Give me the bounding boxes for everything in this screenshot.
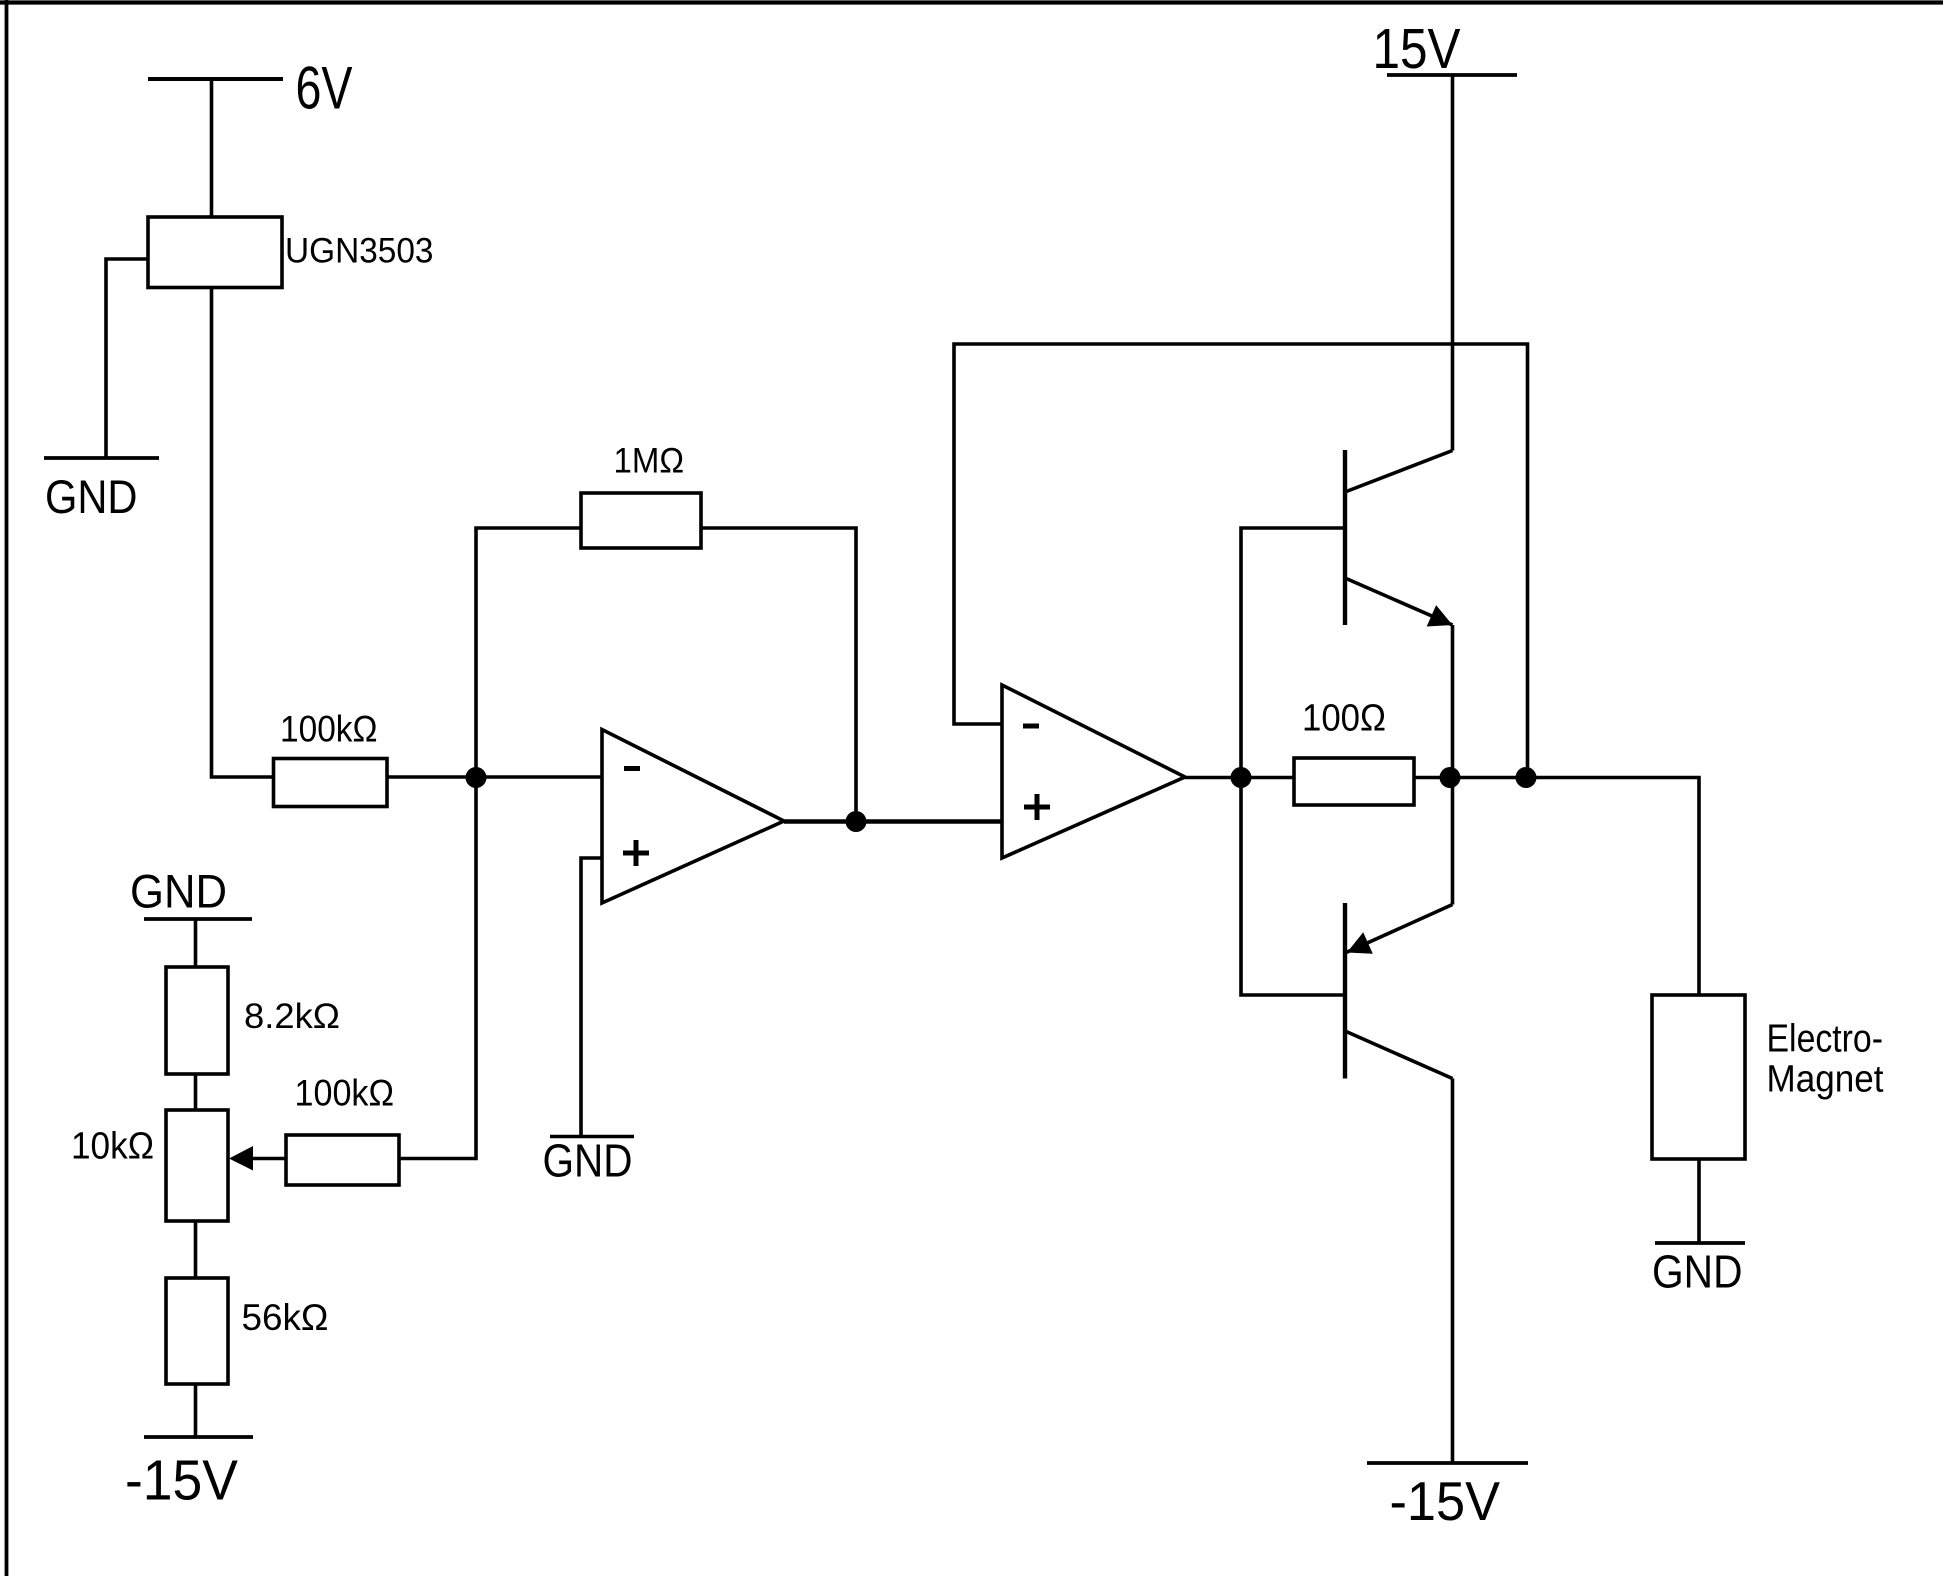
power 15V — [1373, 17, 1518, 80]
wire U2 + input to ground — [581, 858, 602, 1137]
wire R2 to U2 output node — [701, 528, 856, 822]
transistor Q2 PNP — [1345, 903, 1453, 1079]
wire R5 to node A — [399, 778, 476, 1159]
resistor R3 8.2kΩ — [166, 967, 228, 1074]
wire U1 ground pin — [106, 259, 148, 458]
svg-text:10kΩ: 10kΩ — [71, 1126, 154, 1168]
svg-text:100Ω: 100Ω — [1302, 698, 1386, 740]
power -15V (output stage) — [1367, 1463, 1528, 1532]
svg-text:15V: 15V — [1373, 17, 1461, 80]
resistor R1 100kΩ — [274, 759, 388, 807]
wire output rail to electromagnet — [1414, 778, 1699, 996]
svg-text:56kΩ: 56kΩ — [242, 1297, 329, 1338]
svg-text:UGN3503: UGN3503 — [285, 232, 434, 271]
wire R6 to -15V — [194, 1384, 198, 1437]
op-amp U2 — [602, 730, 784, 904]
power -15V (divider) — [125, 1437, 253, 1512]
wire U3 output — [1185, 776, 1294, 780]
ground GND (U2 + input) — [543, 1135, 635, 1187]
hall sensor U1 UGN3503 — [148, 217, 282, 288]
node A — [466, 767, 487, 788]
svg-text:GND: GND — [543, 1135, 633, 1187]
svg-text:GND: GND — [130, 865, 227, 918]
wire Q1 emitter to output rail — [1451, 625, 1455, 905]
svg-text:100kΩ: 100kΩ — [295, 1072, 395, 1114]
ground GND (electromagnet) — [1652, 1243, 1745, 1298]
label Electro-Magnet — [1767, 1018, 1884, 1101]
ground GND (divider top) — [130, 865, 252, 920]
wire U1 output to R1 — [212, 288, 274, 778]
wire U2 output to U3 + input — [784, 819, 1002, 823]
node C (U3 output) — [1231, 767, 1252, 788]
node B (U2 output) — [846, 811, 867, 832]
svg-text:GND: GND — [45, 470, 138, 523]
wire node A up to R2 — [476, 528, 581, 778]
wire divider GND to R3 — [194, 919, 198, 967]
electromagnet L1 — [1652, 995, 1745, 1159]
potentiometer R4 10kΩ — [166, 1110, 228, 1221]
wiper arrow of R4 — [229, 1146, 286, 1171]
svg-text:1MΩ: 1MΩ — [614, 442, 685, 481]
svg-text:Magnet: Magnet — [1767, 1059, 1884, 1101]
svg-text:Electro-: Electro- — [1767, 1018, 1884, 1061]
resistor R6 56kΩ — [166, 1278, 228, 1384]
op-amp U3 — [1002, 685, 1185, 858]
resistor R2 1MΩ — [581, 493, 701, 548]
wire 6V to U1 — [210, 79, 214, 217]
wire Q1 collector to 15V — [1451, 75, 1455, 451]
resistor R5 100kΩ (wiper link) — [286, 1135, 399, 1185]
resistor R7 100Ω — [1294, 758, 1414, 805]
wire base bus to Q1 — [1241, 528, 1345, 778]
wire electromagnet to ground — [1697, 1159, 1701, 1243]
wire R4 to R6 — [194, 1221, 198, 1278]
svg-text:-15V: -15V — [1390, 1471, 1501, 1532]
node E (feedback tap) — [1516, 767, 1537, 788]
svg-text:6V: 6V — [296, 55, 353, 122]
ground GND (hall sensor) — [44, 458, 159, 523]
wire R1 to U2 inverting input — [387, 775, 602, 779]
svg-text:GND: GND — [1652, 1246, 1743, 1298]
power 6V supply bar — [148, 77, 283, 81]
wire base bus to Q2 — [1241, 778, 1345, 996]
node D (emitter rail) — [1440, 767, 1461, 788]
svg-text:100kΩ: 100kΩ — [280, 708, 378, 750]
transistor Q1 NPN — [1345, 450, 1453, 627]
wire Q2 collector to -15V — [1451, 1079, 1455, 1464]
wire R3 to R4 — [194, 1074, 198, 1110]
svg-text:8.2kΩ: 8.2kΩ — [244, 997, 340, 1036]
feedback wire U3 (output node to - input) — [954, 344, 1528, 778]
svg-text:-15V: -15V — [125, 1449, 238, 1512]
